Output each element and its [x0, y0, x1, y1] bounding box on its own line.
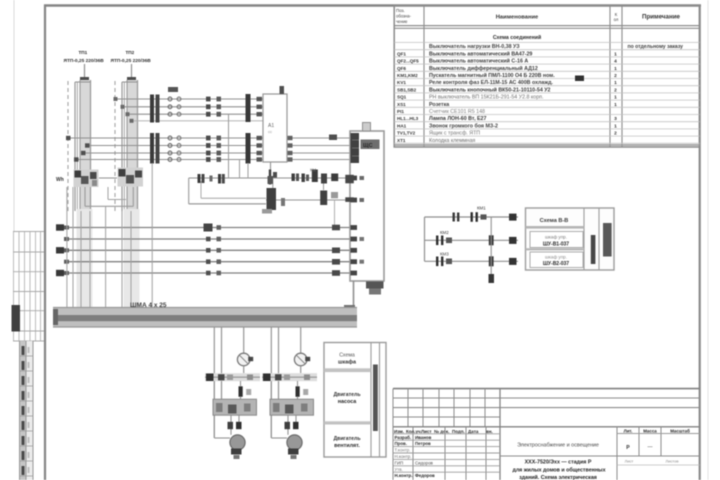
svg-text:зданий. Схема электрическая: зданий. Схема электрическая — [519, 474, 597, 480]
svg-text:Выключатель кнопочный ВК50-21-: Выключатель кнопочный ВК50-21-10110-54 У… — [429, 86, 551, 93]
svg-text:Выключатель автоматический С-1: Выключатель автоматический С-16 А — [429, 58, 528, 65]
svg-text:Двигатель: Двигатель — [333, 392, 360, 398]
svg-text:3: 3 — [614, 116, 617, 122]
svg-text:QF6: QF6 — [397, 66, 406, 71]
svg-text:Колодка клеммная: Колодка клеммная — [429, 138, 475, 144]
svg-text:вентилят.: вентилят. — [334, 443, 360, 449]
svg-text:Схема соединений: Схема соединений — [493, 34, 541, 41]
svg-text:—: — — [648, 444, 653, 450]
svg-text:KM1,KM2: KM1,KM2 — [397, 73, 418, 78]
svg-text:SQ1: SQ1 — [397, 95, 407, 100]
svg-text:Лист: Лист — [421, 429, 432, 434]
svg-text:Лампа ЛОН-60 Вт, Е27: Лампа ЛОН-60 Вт, Е27 — [429, 116, 486, 122]
svg-text:КМ3: КМ3 — [440, 252, 449, 257]
svg-text:Разраб.: Разраб. — [395, 435, 412, 440]
svg-text:SB1,SB2: SB1,SB2 — [397, 87, 417, 92]
svg-text:2: 2 — [614, 73, 617, 79]
svg-text:Лист: Лист — [625, 459, 634, 464]
svg-text:1: 1 — [614, 95, 617, 101]
svg-text:№ док.: № док. — [434, 429, 449, 434]
svg-text:Сидоров: Сидоров — [415, 460, 434, 465]
svg-text:вн.: вн. — [486, 429, 493, 434]
svg-text:Пров.: Пров. — [395, 441, 407, 446]
svg-text:Подп.: Подп. — [452, 429, 465, 434]
svg-text:ЯТП-0,25 220/36В: ЯТП-0,25 220/36В — [111, 58, 152, 64]
svg-text:насоса: насоса — [338, 399, 358, 405]
svg-text:шкаф упр.: шкаф упр. — [545, 255, 567, 260]
svg-text:Листов: Листов — [666, 459, 679, 464]
svg-text:Т.контр.: Т.контр. — [395, 448, 411, 453]
svg-text:Поз.: Поз. — [396, 8, 405, 13]
svg-text:ШУ-В2-037: ШУ-В2-037 — [543, 261, 569, 267]
svg-text:ТП1: ТП1 — [79, 50, 88, 55]
svg-text:ол: ол — [614, 17, 619, 22]
svg-text:XS1: XS1 — [397, 102, 406, 107]
svg-text:PI1: PI1 — [397, 109, 404, 114]
svg-text:сс: сс — [268, 129, 272, 134]
svg-text:1: 1 — [614, 102, 617, 108]
svg-text:Изм.: Изм. — [394, 429, 404, 434]
svg-text:по отдельному заказу: по отдельному заказу — [628, 44, 684, 50]
svg-text:Примечание: Примечание — [642, 14, 680, 21]
svg-text:QF2...QF5: QF2...QF5 — [397, 59, 419, 64]
svg-text:Схема В-В: Схема В-В — [540, 218, 569, 224]
svg-text:Пускатель магнитный ПМЛ-1100 О: Пускатель магнитный ПМЛ-1100 О4 Б 220В н… — [429, 72, 555, 79]
svg-text:HA1: HA1 — [397, 123, 407, 128]
svg-text:РН выключатель ВП 15К21Б-291-5: РН выключатель ВП 15К21Б-291-54 У2.8 кор… — [429, 95, 544, 101]
svg-text:ХХХ-7520/Эхх — стадия Р: ХХХ-7520/Эхх — стадия Р — [525, 460, 592, 466]
svg-text:Двигатель: Двигатель — [333, 436, 360, 442]
svg-text:ЯТП-0,25 220/36В: ЯТП-0,25 220/36В — [64, 58, 105, 64]
svg-text:КМ2: КМ2 — [440, 230, 449, 235]
svg-text:TV1,TV2: TV1,TV2 — [397, 131, 416, 136]
svg-text:Петров: Петров — [415, 441, 431, 446]
svg-text:XT1: XT1 — [397, 138, 406, 143]
svg-text:Схема: Схема — [339, 353, 355, 359]
svg-text:ТП2: ТП2 — [126, 50, 135, 55]
svg-text:шкафа: шкафа — [338, 359, 357, 366]
svg-text:Wh: Wh — [56, 177, 64, 183]
svg-text:Иванов: Иванов — [415, 435, 432, 440]
svg-text:ШМА 4 х 25: ШМА 4 х 25 — [130, 302, 167, 309]
svg-text:1: 1 — [614, 123, 617, 129]
svg-text:2: 2 — [614, 131, 617, 137]
svg-text:HL1...HL3: HL1...HL3 — [397, 116, 419, 121]
svg-text:шкаф упр.: шкаф упр. — [545, 235, 567, 240]
svg-text:Дата: Дата — [468, 429, 479, 434]
svg-text:Выключатель нагрузки ВН-0,38 У: Выключатель нагрузки ВН-0,38 УЗ — [429, 44, 520, 50]
svg-text:1: 1 — [614, 51, 617, 57]
svg-text:1: 1 — [614, 80, 617, 86]
svg-text:Федоров: Федоров — [415, 473, 435, 478]
svg-text:Счетчик СЕ101 R5 148: Счетчик СЕ101 R5 148 — [429, 109, 485, 115]
svg-text:1: 1 — [614, 66, 617, 72]
svg-text:Выключатель дифференциальный А: Выключатель дифференциальный АД12 — [429, 65, 538, 72]
svg-text:Утв.: Утв. — [395, 467, 403, 472]
svg-text:Электроснабжение и освещение: Электроснабжение и освещение — [517, 443, 599, 449]
svg-text:Звонок громкого боя МЗ-2: Звонок громкого боя МЗ-2 — [429, 122, 498, 129]
svg-text:Лит.: Лит. — [624, 429, 633, 434]
svg-text:2: 2 — [614, 87, 617, 93]
svg-text:Ящик с трансф. ЯТП: Ящик с трансф. ЯТП — [429, 131, 480, 137]
svg-text:Масса: Масса — [643, 429, 657, 434]
svg-text:чение: чение — [396, 19, 408, 24]
svg-text:Р: Р — [626, 445, 630, 451]
svg-text:Н.контр.: Н.контр. — [395, 454, 412, 459]
svg-text:Реле контроля фаз ЕЛ-11М-15 АС: Реле контроля фаз ЕЛ-11М-15 АС 400В охла… — [429, 79, 553, 86]
svg-text:КМ: КМ — [310, 168, 316, 173]
svg-text:для жилых домов и общественных: для жилых домов и общественных — [512, 467, 605, 474]
svg-text:КМ1: КМ1 — [477, 206, 486, 211]
svg-text:Масштаб: Масштаб — [670, 429, 690, 434]
svg-text:Н.контр.: Н.контр. — [395, 473, 413, 478]
svg-text:ГИП: ГИП — [395, 460, 404, 465]
svg-text:Выключатель автоматический ВА4: Выключатель автоматический ВА47-29 — [429, 50, 532, 57]
svg-text:ШУ-В1-037: ШУ-В1-037 — [543, 242, 569, 248]
svg-text:Розетка: Розетка — [429, 102, 449, 108]
svg-text:4: 4 — [614, 59, 617, 65]
svg-text:обозна-: обозна- — [396, 14, 412, 19]
svg-text:KV1: KV1 — [397, 80, 406, 85]
svg-text:Наименование: Наименование — [496, 15, 539, 21]
svg-text:ЩС: ЩС — [363, 143, 373, 149]
svg-text:QF1: QF1 — [397, 51, 406, 56]
